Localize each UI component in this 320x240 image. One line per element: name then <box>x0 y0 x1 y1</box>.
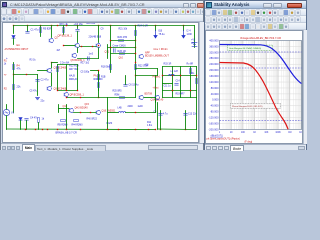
capacitor Cm <box>114 49 116 53</box>
node mid node b <box>92 46 93 47</box>
node col135 node <box>135 53 136 54</box>
wire bot rail drop left <box>157 103 159 130</box>
resistor R6 <box>13 85 15 90</box>
svg-text:C11 1u: C11 1u <box>164 86 172 88</box>
node mb97 b <box>80 97 81 98</box>
svg-text:R1: R1 <box>4 61 8 63</box>
node br node 2 <box>185 129 186 130</box>
resistor R44 <box>74 120 79 122</box>
gain margin annotation <box>228 45 273 50</box>
svg-text:2200: 2200 <box>128 106 134 108</box>
capacitor C3 <box>76 30 80 32</box>
wire V1 bottom <box>6 116 8 130</box>
svg-text:R17 1k2: R17 1k2 <box>81 63 90 65</box>
resistor R5 <box>40 28 42 33</box>
svg-text:QH3 BD140: QH3 BD140 <box>75 107 89 110</box>
phase curve (red) <box>220 63 289 130</box>
wire drv wire 1 <box>59 108 70 110</box>
capacitor C14 <box>175 84 179 86</box>
resistor R22 <box>135 65 137 70</box>
svg-text:Gain Margin=-30.17dB(1.54MEG): Gain Margin=-30.17dB(1.54MEG) <box>229 48 261 50</box>
svg-text:4.7u: 4.7u <box>163 114 168 116</box>
node drv node 2 <box>90 112 91 113</box>
wire R20 link <box>111 40 136 42</box>
node bl node 6 <box>80 129 81 130</box>
node rail junction 6 <box>77 25 78 26</box>
wire Q4-Q8 link <box>80 46 97 48</box>
wire col 98 down <box>98 71 100 91</box>
svg-text:Q3 BC546B: Q3 BC546B <box>54 88 67 91</box>
svg-text:QP BD139_1: QP BD139_1 <box>58 35 73 38</box>
gain curve (blue) <box>220 45 302 84</box>
wire Q1 coll up <box>51 63 53 69</box>
wire Q8 down <box>98 48 100 59</box>
node rail junction 9 <box>135 25 136 26</box>
svg-text:R40 0R22: R40 0R22 <box>87 119 98 121</box>
wire drv vert <box>66 105 68 130</box>
node vas d1 <box>110 40 111 41</box>
node fb node <box>13 74 14 75</box>
wire fb wire <box>14 74 38 76</box>
svg-text:Q5 BD139_1: Q5 BD139_1 <box>71 59 86 62</box>
capacitor C7 <box>88 57 90 61</box>
wire left col <box>13 63 15 113</box>
svg-text:-40.000: -40.000 <box>210 104 219 108</box>
svg-text:C6 15.4u: C6 15.4u <box>129 84 140 87</box>
wire corner drop A <box>157 69 159 76</box>
wire bias box top <box>58 64 78 66</box>
wire net v180 <box>180 67 182 98</box>
svg-text:R8 1.4k: R8 1.4k <box>60 23 69 26</box>
wire C2 col <box>37 75 39 96</box>
svg-text:C13 22n: C13 22n <box>188 114 197 116</box>
wire link 47 <box>108 47 136 49</box>
wire R8b stub <box>38 123 40 130</box>
node bias node 2 <box>66 90 67 91</box>
node rail junction 8 <box>110 25 111 26</box>
wire out link top <box>136 68 158 70</box>
transistor Q13 <box>69 108 74 112</box>
node rail junction 11 <box>183 25 184 26</box>
svg-text:C2 47u: C2 47u <box>41 79 50 82</box>
wire out link 75 <box>136 75 158 77</box>
wire C3 to Q4 <box>77 32 79 43</box>
svg-text:ASYMMETRIC INPUT: ASYMMETRIC INPUT <box>5 48 29 51</box>
node net d4 <box>196 75 197 76</box>
svg-text:10M: 10M <box>299 132 302 134</box>
svg-text:Ro 8R: Ro 8R <box>187 64 194 66</box>
svg-text:C14: C14 <box>176 81 181 83</box>
node VAS node 4 <box>135 75 136 76</box>
svg-text:-80.000: -80.000 <box>210 110 219 114</box>
svg-text:R19 4R7: R19 4R7 <box>176 94 186 96</box>
wire bottom left rail <box>7 128 156 131</box>
resistor R23 <box>135 31 137 36</box>
wire drv wire 2 <box>74 112 97 114</box>
diode D1 <box>12 36 15 39</box>
wire q9 out <box>144 97 156 99</box>
svg-text:Q15: Q15 <box>85 104 90 106</box>
transistor Q7 <box>139 54 143 58</box>
wire C3 stub <box>77 26 79 29</box>
svg-text:R3 1k: R3 1k <box>30 60 37 62</box>
svg-text:100: 100 <box>241 132 246 134</box>
svg-text:ph:OpenLoop(v(OUT)) (Pspice): ph:OpenLoop(v(OUT)) (Pspice) <box>207 137 241 140</box>
wire out col up <box>155 98 157 113</box>
svg-text:10: 10 <box>230 132 233 134</box>
wire Q5 emitter <box>77 48 79 53</box>
wire net v190 <box>190 67 192 98</box>
resistor R18 <box>110 65 112 70</box>
wire emitter bus <box>78 58 99 60</box>
phase reference dashed line <box>220 120 302 122</box>
wire drv stub <box>58 105 60 113</box>
node mb node <box>135 112 136 113</box>
svg-text:Q10: Q10 <box>119 58 124 60</box>
battery V3 <box>192 43 197 47</box>
node br node 1 <box>160 129 161 130</box>
svg-text:V1: V1 <box>11 112 15 115</box>
svg-text:L4B: L4B <box>118 108 123 110</box>
node net d5 <box>172 90 173 91</box>
gain margin dashed level <box>220 51 302 53</box>
wire mid vert 107 <box>107 98 109 130</box>
svg-text:360.000: 360.000 <box>209 44 219 48</box>
node bias node 1 <box>57 90 58 91</box>
resistor R16 <box>98 75 100 80</box>
transistor Q2 <box>49 38 54 42</box>
wire bot rail right <box>158 128 197 131</box>
resistor RL <box>196 79 198 84</box>
grid decade verticals <box>220 41 302 130</box>
node ltp top node <box>51 62 52 63</box>
current source I1 <box>154 31 157 39</box>
svg-text:(F deg): (F deg) <box>245 140 253 143</box>
current source I2 <box>182 31 185 39</box>
svg-text:+C3 16u: +C3 16u <box>74 23 84 26</box>
node base node Q4 <box>63 45 64 46</box>
wire col98 ext <box>98 71 100 98</box>
transistor Q6 <box>64 92 69 96</box>
resistor R8 <box>63 28 65 33</box>
wire C8 col <box>160 111 162 130</box>
source V1 <box>3 109 9 115</box>
node net d3 <box>180 75 181 76</box>
svg-text:0.000: 0.000 <box>212 98 219 102</box>
svg-text:QP BC556_1: QP BC556_1 <box>70 94 85 97</box>
svg-text:R26 1R: R26 1R <box>118 50 127 53</box>
node bl node 4 <box>47 129 48 130</box>
wire C13 col <box>185 111 187 130</box>
wire ltp top link <box>52 62 58 64</box>
svg-text:R18 5k6: R18 5k6 <box>101 66 111 69</box>
svg-text:10K: 10K <box>264 132 269 134</box>
wire bias box bottom <box>58 90 78 92</box>
svg-text:4k7: 4k7 <box>57 50 61 52</box>
svg-text:200.000: 200.000 <box>209 68 219 72</box>
svg-text:Q11: Q11 <box>105 51 110 54</box>
capacitor C1 <box>26 32 30 34</box>
plot frame <box>220 41 302 130</box>
resistor R8b <box>38 118 40 123</box>
svg-text:120.000: 120.000 <box>209 80 219 84</box>
transistor Q3 <box>47 86 52 90</box>
wire bot rail up right <box>196 98 198 130</box>
svg-text:1M: 1M <box>288 132 291 134</box>
svg-text:+Vout: +Vout <box>153 87 159 90</box>
svg-text:320.000: 320.000 <box>209 50 219 54</box>
wire net v162 <box>162 67 164 98</box>
wire mid bus 112b <box>126 112 156 114</box>
wire V1 top <box>6 105 8 110</box>
wire probe link <box>91 70 99 72</box>
svg-text:+v: +v <box>4 74 7 77</box>
node net d6 <box>190 90 191 91</box>
wire I2 drop <box>183 26 185 31</box>
wire net v172 <box>172 67 174 98</box>
node bl node 9 <box>135 129 136 130</box>
resistor R20 <box>119 40 124 42</box>
node bias node 3 <box>77 90 78 91</box>
svg-text:C4 47u: C4 47u <box>30 117 39 120</box>
svg-text:R1B: R1B <box>101 77 106 79</box>
node rail junction 3 <box>51 25 52 26</box>
capacitor C4 <box>25 119 29 121</box>
wire C1 stub <box>27 26 29 32</box>
svg-text:R2: R2 <box>4 88 8 91</box>
transistor Q8 <box>96 43 101 47</box>
wire out col 155 <box>155 76 157 103</box>
node bl node 2 <box>35 129 36 130</box>
svg-text:Q13: Q13 <box>63 105 68 108</box>
wire +V rail right drop <box>194 26 196 48</box>
svg-text:RB R2M0: RB R2M0 <box>58 125 69 127</box>
node bl node 4b <box>57 129 58 130</box>
svg-text:Q16 2N5551: Q16 2N5551 <box>102 110 116 113</box>
svg-text:160.000: 160.000 <box>209 74 219 78</box>
svg-text:RL: RL <box>192 73 196 75</box>
wire net mid 83 <box>163 83 173 85</box>
node rail junction 1 <box>27 25 28 26</box>
svg-text:1K: 1K <box>253 132 256 134</box>
svg-text:C9: C9 <box>101 29 105 31</box>
svg-text:-120.000: -120.000 <box>208 116 219 120</box>
wire input drop <box>13 26 15 34</box>
svg-text:1u00: 1u00 <box>138 106 144 108</box>
svg-text:47k: 47k <box>17 68 22 71</box>
node bl node 3 <box>42 129 43 130</box>
wire bias box right <box>77 65 79 91</box>
node fb mid <box>26 74 27 75</box>
svg-text:R5 82R: R5 82R <box>43 28 52 31</box>
svg-text:100K: 100K <box>275 132 281 134</box>
wire LTP tail <box>51 73 53 86</box>
svg-text:22k: 22k <box>17 86 22 89</box>
wire +V rail top <box>14 25 195 27</box>
svg-text:1m5: 1m5 <box>89 54 94 56</box>
wire Q8 drop <box>98 26 100 43</box>
inductor L1 <box>169 75 175 76</box>
wire net mid 90 <box>163 90 197 92</box>
node mb97 c <box>98 97 99 98</box>
transistor Q16 <box>96 110 101 114</box>
node bl node 11 <box>155 129 156 130</box>
svg-text:1/2R: 1/2R <box>187 33 192 36</box>
node VAS node 2 <box>135 47 136 48</box>
svg-text:-200.000: -200.000 <box>208 127 219 131</box>
svg-text:C5 100p: C5 100p <box>81 72 90 74</box>
svg-text:+E3: +E3 <box>144 64 149 67</box>
x axis labels <box>219 132 304 134</box>
svg-text:BD708: BD708 <box>145 93 153 96</box>
wire Q11 stub <box>107 45 109 59</box>
node rail junction 4 <box>57 25 58 26</box>
svg-text:Vintage-Mod-AB-EV_BR-70/3.7-CR: Vintage-Mod-AB-EV_BR-70/3.7-CR <box>240 36 281 40</box>
node VAS node 1 <box>135 40 136 41</box>
wire bias box left <box>57 65 59 91</box>
node mid node a <box>81 46 82 47</box>
svg-text:+V3: +V3 <box>191 40 196 42</box>
svg-text:C1 47u: C1 47u <box>31 29 40 32</box>
svg-text:R24 0.1R: R24 0.1R <box>138 25 149 28</box>
grid horizontals <box>220 46 302 123</box>
svg-text:R11: R11 <box>147 122 152 124</box>
svg-text:R33 1R: R33 1R <box>164 64 172 66</box>
svg-text:Q1 BC546B: Q1 BC546B <box>54 67 67 70</box>
svg-text:C5 47u: C5 47u <box>30 91 38 93</box>
node bl node 7 <box>107 129 108 130</box>
wire net v196 <box>196 67 198 98</box>
wire mid bus 97 left <box>67 97 108 99</box>
transistor Q14 <box>155 95 159 99</box>
svg-text:1k: 1k <box>4 64 7 66</box>
svg-text:240.000: 240.000 <box>209 62 219 66</box>
svg-text:BD139: BD139 <box>145 55 153 58</box>
node rail junction 2 <box>40 25 41 26</box>
wire net top <box>163 66 197 68</box>
svg-text:22k/4B B18: 22k/4B B18 <box>89 36 102 39</box>
wire R8 drop <box>63 26 65 35</box>
y axis labels <box>208 38 219 131</box>
svg-text:time = 98.4m: time = 98.4m <box>154 48 168 51</box>
grid minor verticals <box>223 41 301 130</box>
svg-text:R21 10k: R21 10k <box>119 29 128 31</box>
svg-text:-160.000: -160.000 <box>208 121 219 125</box>
svg-text:R5M: R5M <box>115 95 120 97</box>
0 dB reference dashed line <box>220 67 302 69</box>
resistor R5M <box>120 97 125 99</box>
wire Q1 base <box>38 70 48 72</box>
svg-text:22u: 22u <box>41 101 46 103</box>
transistor Q4 <box>75 43 80 47</box>
wire D1 to node <box>13 39 15 45</box>
transistor Q1 <box>47 68 52 72</box>
wire bias v2 <box>66 65 68 91</box>
wire Q2 drop <box>51 26 53 38</box>
svg-text:40.000: 40.000 <box>211 92 219 96</box>
wire vas bottom <box>108 97 136 99</box>
node net d1 <box>162 75 163 76</box>
node rail junction 10 <box>155 25 156 26</box>
transistor Q5 <box>72 53 77 57</box>
resistor R16b <box>98 83 100 88</box>
resistor R12 <box>57 67 59 72</box>
wire R5 drop <box>40 26 42 37</box>
wire mid bus 112 <box>108 112 119 114</box>
ground ground input <box>36 98 40 100</box>
transistor Q9 <box>139 95 143 99</box>
svg-text:280.000: 280.000 <box>209 56 219 60</box>
svg-text:R25 0R5: R25 0R5 <box>113 91 123 93</box>
wire col 110 <box>110 26 112 73</box>
phase margin annotation <box>231 103 281 108</box>
node bl node 8 <box>118 129 119 130</box>
node probe node <box>98 70 99 71</box>
svg-text:L1 1uH: L1 1uH <box>171 71 179 73</box>
inductor L4 <box>119 111 126 112</box>
svg-text:Phase Margin=-59.81 (181.97K): Phase Margin=-59.81 (181.97K) <box>232 106 263 108</box>
wire net bottom <box>163 97 197 99</box>
diode D2 <box>19 118 22 121</box>
resistor R26 <box>120 53 125 55</box>
svg-text:Cmar CM16: Cmar CM16 <box>113 45 127 48</box>
capacitor C6 <box>124 85 128 87</box>
svg-text:+: + <box>6 56 8 60</box>
node rail junction 5 <box>66 25 67 26</box>
node bl node 10 <box>148 129 149 130</box>
node vas d2 <box>110 47 111 48</box>
svg-text:BRASA_AB 3.7-CR: BRASA_AB 3.7-CR <box>56 132 78 135</box>
wire I1 drop <box>155 26 157 31</box>
node rail junction 0 <box>13 25 14 26</box>
resistor Ro <box>190 69 192 74</box>
svg-text:LM3886_OUT: LM3886_OUT <box>154 55 170 58</box>
node rail junction 7 <box>98 25 99 26</box>
svg-text:400.000: 400.000 <box>209 38 219 42</box>
svg-text:R10 220: R10 220 <box>87 23 96 25</box>
wire Q4 base wire <box>64 45 76 47</box>
node bl node 5 <box>66 129 67 130</box>
svg-text:Probe1: Probe1 <box>153 76 162 79</box>
capacitor C13 <box>184 114 188 116</box>
node y45 node <box>98 45 99 46</box>
wire R26 link <box>111 53 136 55</box>
svg-text:EA: EA <box>17 44 21 47</box>
node VAS node 3 <box>135 62 136 63</box>
node bl node 1 <box>25 129 26 130</box>
wire R24 col drop <box>135 26 137 98</box>
node drv node 1 <box>80 112 81 113</box>
svg-text:1.8m: 1.8m <box>147 125 152 127</box>
wire net mid 75 <box>163 75 197 77</box>
capacitor C2 <box>36 80 40 82</box>
svg-text:R20 47R: R20 47R <box>118 36 128 39</box>
resistor R4 <box>13 65 15 70</box>
svg-text:1k: 1k <box>42 118 45 121</box>
svg-text:75.4u: 75.4u <box>159 33 166 36</box>
svg-text:R0R,A0: R0R,A0 <box>69 78 78 81</box>
svg-text:80.000: 80.000 <box>211 86 219 90</box>
wire D2 stub <box>20 121 22 130</box>
svg-text:R44 R2M0: R44 R2M0 <box>72 125 84 127</box>
resistor R9 <box>61 120 66 122</box>
node net d2 <box>172 75 173 76</box>
wire C4 stub <box>26 121 28 130</box>
capacitor C8 <box>159 114 163 116</box>
wire C6 stub up <box>125 76 127 85</box>
node mb97 a <box>66 97 67 98</box>
